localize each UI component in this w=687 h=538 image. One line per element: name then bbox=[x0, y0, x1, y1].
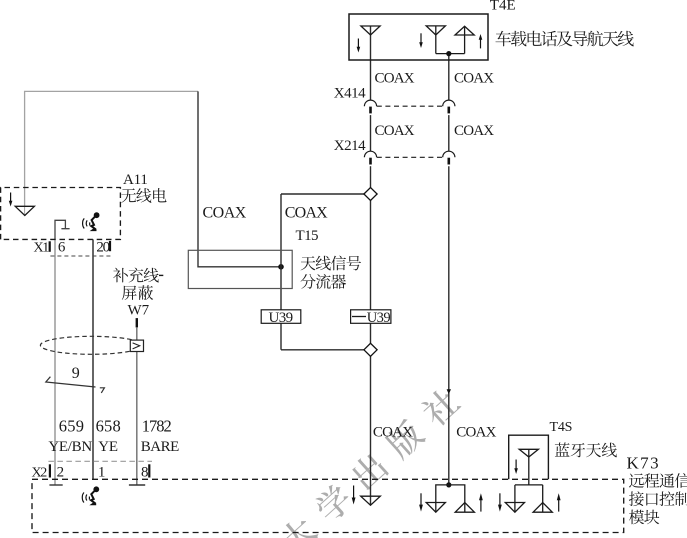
svg-text:W7: W7 bbox=[128, 302, 150, 318]
svg-text:COAX: COAX bbox=[454, 71, 494, 87]
svg-text:X1: X1 bbox=[34, 240, 50, 255]
svg-text:K73: K73 bbox=[627, 453, 660, 472]
svg-text:COAX: COAX bbox=[456, 424, 496, 440]
svg-text:A11: A11 bbox=[123, 172, 148, 188]
svg-text:2: 2 bbox=[57, 465, 64, 481]
svg-text:T15: T15 bbox=[296, 228, 318, 244]
svg-text:YE: YE bbox=[98, 439, 118, 455]
svg-text:1782: 1782 bbox=[142, 417, 172, 436]
svg-text:COAX: COAX bbox=[373, 424, 413, 440]
svg-text:T4E: T4E bbox=[490, 0, 516, 14]
svg-text:COAX: COAX bbox=[285, 205, 328, 222]
svg-text:20: 20 bbox=[96, 239, 109, 255]
svg-text:1: 1 bbox=[98, 465, 105, 481]
svg-text:U39: U39 bbox=[367, 310, 391, 326]
svg-text:U39: U39 bbox=[269, 310, 293, 326]
svg-text:COAX: COAX bbox=[203, 205, 247, 222]
svg-text:8: 8 bbox=[141, 465, 148, 481]
svg-text:COAX: COAX bbox=[454, 123, 494, 139]
svg-text:T4S: T4S bbox=[550, 420, 573, 435]
svg-text:659: 659 bbox=[59, 417, 84, 436]
svg-text:9: 9 bbox=[72, 365, 80, 382]
svg-text:COAX: COAX bbox=[375, 71, 415, 87]
svg-text:COAX: COAX bbox=[375, 123, 415, 139]
svg-text:X414: X414 bbox=[334, 85, 366, 101]
svg-text:X214: X214 bbox=[334, 138, 366, 154]
svg-text:YE/BN: YE/BN bbox=[48, 439, 92, 455]
svg-text:658: 658 bbox=[96, 417, 121, 436]
svg-text:X2: X2 bbox=[32, 466, 48, 481]
svg-text:BARE: BARE bbox=[141, 439, 179, 455]
